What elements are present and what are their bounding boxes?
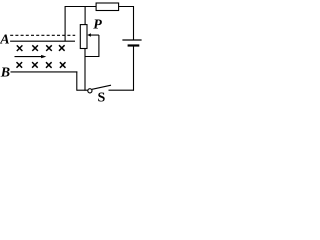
velocity arrow — [15, 56, 43, 58]
field cross row2 c2 — [32, 62, 38, 68]
wire bottom right segment — [109, 89, 135, 91]
wire from rail B down — [76, 71, 78, 90]
resistor R (fixed) — [96, 3, 119, 11]
wire left vertical — [64, 6, 66, 42]
rheostat P slider loop wire — [85, 35, 99, 56]
switch S blade — [92, 85, 111, 89]
svg-text:S: S — [98, 91, 106, 104]
rheostat P slider arrow — [90, 34, 99, 36]
svg-text:B: B — [0, 65, 10, 80]
svg-text:P: P — [93, 17, 102, 32]
svg-text:A: A — [0, 33, 10, 48]
wire from top down to rheostat P — [84, 7, 86, 25]
wire bottom left segment — [77, 89, 88, 91]
wire right vertical upper — [133, 6, 135, 40]
field cross row1 c4 — [59, 45, 65, 51]
battery cell long plate — [122, 39, 141, 41]
battery cell short plate — [128, 44, 140, 46]
wire top horizontal — [65, 6, 133, 8]
field cross row2 c1 — [17, 62, 23, 68]
field cross row2 c3 — [46, 62, 52, 68]
switch S pivot — [88, 89, 92, 93]
field cross row1 c2 — [32, 45, 38, 51]
field boundary dashed line — [10, 34, 75, 36]
rail A — [10, 40, 75, 42]
wire right vertical lower — [133, 46, 135, 91]
field cross row2 c4 — [60, 62, 66, 68]
field cross row1 c3 — [46, 45, 52, 51]
rheostat P body — [80, 25, 87, 49]
wire from rheostat P bottom down — [84, 49, 86, 91]
rail B — [11, 71, 78, 73]
field cross row1 c1 — [17, 45, 23, 51]
